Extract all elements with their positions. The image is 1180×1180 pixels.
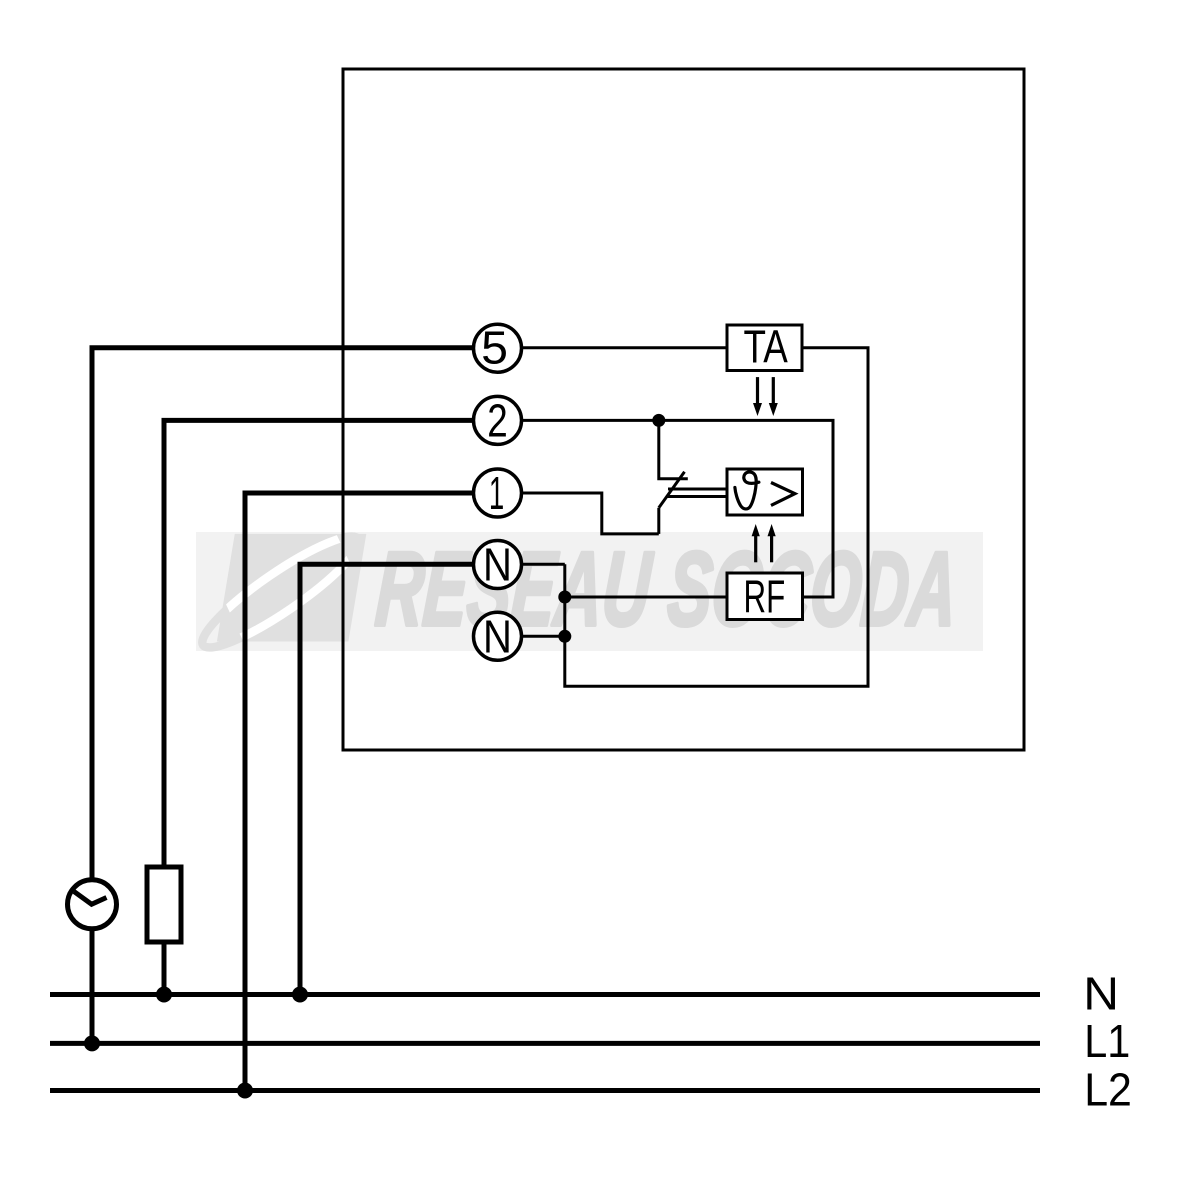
TA box <box>727 321 802 373</box>
theta glyph <box>735 472 759 509</box>
switch pivot lead <box>657 508 660 534</box>
thermostat actuation link <box>666 489 727 497</box>
junction resistor N <box>156 987 172 1003</box>
wire terminal N left drop <box>300 564 475 994</box>
svg-text:TA: TA <box>743 321 787 373</box>
thermostat box <box>727 469 803 515</box>
clock symbol <box>68 880 117 929</box>
svg-text:N: N <box>1083 969 1119 1020</box>
wire terminal 1 to switch <box>522 493 659 534</box>
resistor (load) <box>147 867 181 942</box>
terminal N upper <box>474 540 522 591</box>
terminal 2 <box>474 394 522 446</box>
wire terminal 2 left drop <box>164 420 475 867</box>
junction N lower vertical <box>558 630 571 643</box>
svg-text:5: 5 <box>481 322 508 374</box>
svg-text:RF: RF <box>744 572 786 623</box>
junction N drop <box>292 987 308 1003</box>
switch blade <box>659 472 685 508</box>
switch fixed contact <box>659 420 688 478</box>
junction node switch top <box>652 414 665 427</box>
svg-text:1: 1 <box>489 469 504 520</box>
wire terminal 5 left drop <box>92 348 475 878</box>
wire terminal N upper to vertical <box>522 563 565 566</box>
RF box <box>727 572 803 623</box>
svg-text:RESEAU SOCODA: RESEAU SOCODA <box>372 531 960 648</box>
svg-text:L1: L1 <box>1084 1016 1130 1068</box>
watermark text RESEAU SOCODA <box>372 531 960 648</box>
wire resistor to N <box>162 942 167 995</box>
junction 1 L2 <box>237 1083 253 1099</box>
device outline box <box>343 69 1024 750</box>
wire terminal N lower to vertical <box>522 635 565 638</box>
RF actuation arrows <box>752 524 776 562</box>
bus line L2 <box>50 1088 1040 1093</box>
wire terminal 1 left drop <box>245 493 475 1091</box>
bus line N <box>50 992 1040 997</box>
watermark band <box>196 532 983 651</box>
wire RF left to N vertical <box>565 596 727 599</box>
svg-text:L2: L2 <box>1084 1065 1132 1116</box>
junction RF N vertical <box>558 591 571 604</box>
bus line L1 <box>50 1041 1040 1046</box>
svg-text:N: N <box>483 540 512 591</box>
wire clock to L1 <box>90 931 95 1043</box>
wire terminal 2 to right vertical <box>522 420 833 597</box>
terminal N lower <box>474 612 522 663</box>
watermark logo swoosh <box>192 523 369 661</box>
TA actuation arrows <box>753 377 778 416</box>
junction clock L1 <box>84 1035 100 1051</box>
terminal 5 <box>474 322 522 374</box>
terminal 1 <box>474 469 522 520</box>
svg-text:N: N <box>483 612 512 663</box>
greater-than symbol <box>771 483 795 506</box>
svg-text:2: 2 <box>487 394 507 446</box>
wire terminal 5 to TA <box>522 346 727 349</box>
wire TA right loop to N vertical <box>565 348 868 686</box>
